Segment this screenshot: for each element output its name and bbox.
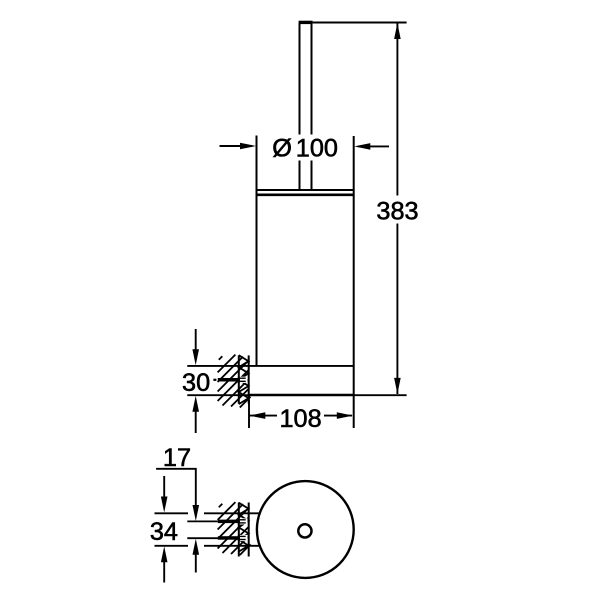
svg-text:108: 108 <box>279 405 321 433</box>
wall hatching top view <box>218 502 251 555</box>
screw 1 top view <box>240 518 248 524</box>
dimension Ø100 left arrow <box>220 145 253 147</box>
wall hatching side view <box>218 355 251 408</box>
dimension 108 <box>250 415 278 417</box>
bottom right extension (383 dim) <box>354 394 407 396</box>
rod top cap <box>299 21 313 24</box>
svg-text:Ø: Ø <box>272 134 292 162</box>
vessel left edge with Ø100 extension <box>256 136 258 366</box>
wall plate side view <box>239 355 249 403</box>
mounting plate top view <box>239 503 249 557</box>
vessel rim <box>256 189 355 191</box>
screw 2 top view <box>240 535 248 541</box>
anchor zigzag side view <box>239 355 249 404</box>
svg-text:383: 383 <box>376 197 418 225</box>
brush handle rod <box>300 23 312 190</box>
dimension Ø100 right arrow <box>358 145 389 147</box>
vessel right edge with extensions <box>353 136 355 428</box>
connector arm top view <box>204 512 260 514</box>
holder ring top line with 30 extension <box>187 365 353 367</box>
svg-text:34: 34 <box>150 518 178 546</box>
screw side view <box>240 377 248 383</box>
dimension 30 <box>195 329 197 351</box>
dimension 108 left extension <box>248 400 250 429</box>
vessel bottom line <box>249 394 354 397</box>
holder circle top view <box>257 481 354 578</box>
dimension 17 leader <box>156 469 196 506</box>
rod top extension line <box>313 22 407 24</box>
center hole top view <box>298 524 311 537</box>
anchor zigzag top view <box>239 503 249 552</box>
dimension 383 line <box>396 23 398 195</box>
svg-text:30: 30 <box>182 369 210 397</box>
dimension 17 extensions <box>187 520 218 522</box>
dimension 34 extensions <box>155 512 189 514</box>
dimension 34 <box>163 476 165 497</box>
svg-text:17: 17 <box>163 444 191 472</box>
svg-text:100: 100 <box>296 134 338 162</box>
bottom left extension (30 dim) <box>187 394 250 396</box>
